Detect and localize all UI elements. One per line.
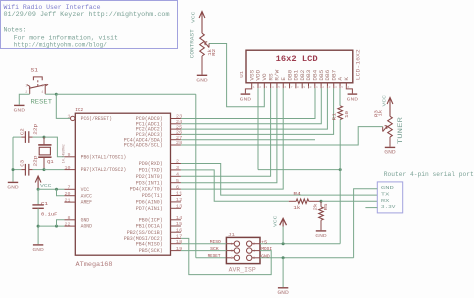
svg-text:AVR_ISP: AVR_ISP <box>229 266 256 273</box>
node XTAL2 junction <box>43 168 46 171</box>
svg-text:1k: 1k <box>293 206 300 211</box>
svg-text:VO: VO <box>262 73 268 80</box>
wire E net <box>181 88 283 189</box>
svg-text:9: 9 <box>303 86 305 89</box>
svg-text:PD2(INT0): PD2(INT0) <box>136 174 163 180</box>
svg-text:4: 4 <box>176 173 180 178</box>
ground under R5 <box>316 230 326 232</box>
svg-text:21: 21 <box>65 198 71 203</box>
svg-text:AREF: AREF <box>81 200 92 206</box>
wire to AVCC pin <box>57 189 65 195</box>
wire AGND row <box>38 225 64 227</box>
svg-text:PD4(XCK/T0): PD4(XCK/T0) <box>130 187 163 193</box>
svg-text:9: 9 <box>68 153 71 158</box>
svg-text:S1: S1 <box>31 67 39 73</box>
wire reset net to ISP pin 5 <box>196 257 227 259</box>
wire reset net horizontal to ISP column <box>56 93 196 95</box>
svg-text:TUNER: TUNER <box>397 117 404 144</box>
title block frame <box>1 1 178 49</box>
svg-text:PD7(AIN1): PD7(AIN1) <box>136 206 163 212</box>
svg-text:6: 6 <box>176 185 180 190</box>
header J1 AVR_ISP body <box>226 237 260 263</box>
ground under VSS <box>241 93 251 95</box>
wire R/W net <box>181 88 277 182</box>
svg-text:C3: C3 <box>20 159 25 166</box>
svg-text:3: 3 <box>266 86 268 89</box>
svg-text:R5: R5 <box>323 203 329 210</box>
wire ISP GND drop <box>282 258 284 287</box>
svg-text:8: 8 <box>68 216 71 221</box>
svg-text:12: 12 <box>176 198 183 203</box>
svg-text:22p: 22p <box>33 155 38 167</box>
wire C3 to crystal bottom node <box>33 169 44 171</box>
svg-text:R1: R1 <box>332 113 338 121</box>
svg-text:15: 15 <box>176 222 183 227</box>
wire switch left to ground <box>19 94 29 104</box>
svg-text:4: 4 <box>272 86 274 89</box>
svg-text:DB3: DB3 <box>306 70 312 81</box>
svg-text:GND: GND <box>261 253 270 259</box>
wire VCC rail vertical <box>339 120 341 244</box>
wire to GND pin 8 <box>57 220 65 226</box>
wire K to ground <box>346 88 352 93</box>
wire RS net <box>181 88 271 176</box>
wire A to resistor R1 <box>339 88 341 106</box>
capacitor C3 <box>24 164 26 176</box>
capacitor C2 <box>24 131 26 143</box>
svg-text:GND: GND <box>7 185 19 191</box>
svg-text:GND: GND <box>315 233 327 239</box>
svg-text:VSS: VSS <box>249 70 255 81</box>
wire reset junction to IC pin 1 <box>56 94 70 118</box>
node cap-gnd junction <box>12 168 15 171</box>
svg-text:2: 2 <box>259 86 261 89</box>
svg-text:22p: 22p <box>33 123 38 135</box>
svg-text:MOSI: MOSI <box>261 246 272 252</box>
supply VCC tuner <box>387 98 393 105</box>
wire R2 wiper tail <box>208 44 210 48</box>
wire DB6 net <box>181 88 327 129</box>
svg-text:Router 4-pin serial port: Router 4-pin serial port <box>384 171 474 178</box>
svg-text:Q1: Q1 <box>47 161 54 165</box>
switch S1 <box>33 77 42 80</box>
svg-text:RESET: RESET <box>208 253 221 259</box>
svg-text:R/W: R/W <box>275 70 281 81</box>
svg-text:ATmega168: ATmega168 <box>76 261 113 268</box>
svg-text:PB2(SS/OC1B): PB2(SS/OC1B) <box>127 230 163 236</box>
ground under ISP <box>278 287 288 289</box>
svg-text:14.7456MHz: 14.7456MHz <box>63 144 67 163</box>
wire crystal node to XTAL1 pin <box>44 137 64 157</box>
svg-text:GND: GND <box>240 96 252 102</box>
wire C2 to crystal node <box>33 136 44 138</box>
svg-text:4: 4 <box>41 91 43 95</box>
LCD module U1 body <box>246 50 353 83</box>
svg-text:PD6(AIN0): PD6(AIN0) <box>136 200 163 206</box>
svg-text:PB5(SCK): PB5(SCK) <box>139 248 163 254</box>
svg-text:20: 20 <box>65 192 71 197</box>
wire reset net vertical <box>195 94 197 258</box>
svg-text:5: 5 <box>176 179 180 184</box>
svg-text:PB4(MISO): PB4(MISO) <box>136 241 163 247</box>
wire +5 net <box>252 243 260 245</box>
supply VCC left <box>35 176 41 183</box>
svg-text:13: 13 <box>176 205 183 210</box>
node ISP GND junction <box>282 256 285 259</box>
supply VCC at ISP <box>280 218 287 225</box>
IC right pins <box>171 118 181 120</box>
wire VDD net to VCC rail <box>258 169 340 171</box>
svg-text:AVCC: AVCC <box>81 193 92 199</box>
svg-text:0.1uF: 0.1uF <box>41 213 58 218</box>
svg-text:1: 1 <box>25 84 27 88</box>
svg-text:2: 2 <box>176 160 180 165</box>
svg-text:VCC: VCC <box>190 11 196 23</box>
svg-text:LCD-16X2: LCD-16X2 <box>356 49 362 80</box>
ground under caps <box>8 181 18 183</box>
wire router GND to ISP ground rail <box>354 189 378 258</box>
potentiometer R3 TUNER <box>388 116 393 137</box>
svg-text:MISO: MISO <box>210 239 221 245</box>
wire caps to ground <box>12 137 14 182</box>
svg-text:DB2: DB2 <box>300 70 306 81</box>
crystal Q1 <box>43 137 45 144</box>
node XTAL1 junction <box>43 136 46 139</box>
node R4-R5 junction <box>320 200 323 203</box>
svg-text:DB6: DB6 <box>325 70 331 81</box>
svg-text:3: 3 <box>176 166 180 171</box>
svg-text:10: 10 <box>308 86 312 89</box>
svg-text:GND: GND <box>32 247 44 253</box>
wire C1 to ground <box>37 208 39 244</box>
svg-text:11: 11 <box>176 192 183 197</box>
wire R3 to ground <box>389 137 391 147</box>
svg-text:PC6(/RESET): PC6(/RESET) <box>81 116 112 122</box>
ground under R3 <box>385 146 395 148</box>
svg-text:16: 16 <box>176 228 183 233</box>
svg-text:10: 10 <box>344 111 350 118</box>
svg-text:PB6(XTAL1/TOSC1): PB6(XTAL1/TOSC1) <box>81 154 127 160</box>
svg-text:A: A <box>338 77 344 81</box>
svg-text:1: 1 <box>253 86 255 89</box>
svg-text:SCK: SCK <box>210 246 219 252</box>
node VCC junction <box>37 188 40 191</box>
wire VCC to pin 7 <box>38 188 64 190</box>
svg-text:10: 10 <box>65 166 71 171</box>
svg-text:For more information, visit: For more information, visit <box>14 34 118 41</box>
wire VDD net vertical <box>257 88 259 169</box>
wire ISP GND net <box>252 257 260 259</box>
svg-text:GND: GND <box>347 96 359 102</box>
svg-text:VDD: VDD <box>256 70 262 81</box>
wire SCK net <box>181 250 226 252</box>
wire C2 left lead <box>13 136 21 138</box>
svg-text:DB7: DB7 <box>331 70 337 81</box>
svg-text:7: 7 <box>68 186 71 191</box>
svg-text:22: 22 <box>65 222 71 227</box>
wire router 3.3V stub <box>365 207 377 209</box>
wire DB4 net <box>181 88 315 118</box>
svg-text:http://mightyohm.com/blog/: http://mightyohm.com/blog/ <box>14 42 107 49</box>
svg-text:GND: GND <box>384 150 396 156</box>
capacitor C1 <box>37 189 39 204</box>
node VCC-AVCC junction <box>55 188 58 191</box>
svg-text:RESET: RESET <box>31 99 53 106</box>
LCD pins <box>251 83 253 89</box>
svg-text:C1: C1 <box>41 202 48 207</box>
svg-text:C2: C2 <box>20 128 25 135</box>
wire PD1 TXD net to R4 <box>181 170 289 201</box>
svg-text:RS: RS <box>268 73 274 80</box>
router port connector box <box>377 182 402 213</box>
svg-text:2k: 2k <box>313 203 319 210</box>
ground under switch <box>14 104 24 106</box>
wire VO net to contrast wiper <box>209 44 264 107</box>
node RESET junction <box>55 93 58 96</box>
svg-text:R4: R4 <box>293 192 301 197</box>
svg-text:VCC: VCC <box>81 187 90 193</box>
node +5 junction <box>282 242 285 245</box>
svg-text:DB0: DB0 <box>287 70 293 81</box>
svg-text:AGND: AGND <box>81 224 92 230</box>
svg-text:PB1(OC1A): PB1(OC1A) <box>136 224 163 230</box>
svg-text:Wifi Radio User Interface: Wifi Radio User Interface <box>4 4 101 11</box>
svg-text:TX: TX <box>381 192 390 198</box>
svg-text:U1: U1 <box>240 70 245 77</box>
svg-text:GND: GND <box>381 185 394 191</box>
svg-text:GND: GND <box>196 78 208 84</box>
svg-text:1: 1 <box>68 115 71 120</box>
svg-text:PD0(RXD): PD0(RXD) <box>139 161 163 167</box>
svg-text:3.3V: 3.3V <box>381 204 396 210</box>
supply VCC contrast <box>199 12 205 19</box>
svg-text:GND: GND <box>81 217 90 223</box>
svg-text:1k: 1k <box>378 110 384 117</box>
wire C3 left lead <box>13 169 21 171</box>
resistor R1 <box>338 106 343 120</box>
svg-text:14: 14 <box>176 216 183 221</box>
potentiometer R2 CONTRAST <box>200 33 205 56</box>
ground under R2 <box>197 74 207 76</box>
svg-text:DB1: DB1 <box>294 70 300 81</box>
svg-text:PB7(XTAL2/TOSC2): PB7(XTAL2/TOSC2) <box>81 167 127 173</box>
wire tuner wiper to PC5 <box>382 127 384 132</box>
svg-text:GND: GND <box>14 108 26 114</box>
ground under C1 <box>33 244 43 246</box>
header J1 pin circles <box>234 241 239 246</box>
svg-text:PB0(ICP): PB0(ICP) <box>139 217 163 223</box>
svg-text:J1: J1 <box>228 233 235 238</box>
svg-text:3: 3 <box>41 84 43 88</box>
svg-text:VCC: VCC <box>272 215 278 227</box>
resistor R5 <box>320 201 322 207</box>
svg-text:DB5: DB5 <box>319 70 325 81</box>
svg-text:E: E <box>281 77 287 81</box>
svg-text:GND: GND <box>277 290 289 296</box>
svg-text:6: 6 <box>284 86 286 89</box>
svg-text:K: K <box>344 77 350 81</box>
node GND-AGND junction <box>55 225 58 228</box>
wire switch right to reset junction <box>45 93 56 95</box>
wire DB7 net <box>181 88 334 134</box>
svg-text:PD1(TXD): PD1(TXD) <box>139 168 163 174</box>
wire VSS to ground <box>245 88 251 93</box>
svg-text:5: 5 <box>231 257 233 261</box>
svg-text:Notes:: Notes: <box>4 26 27 33</box>
svg-text:16x2 LCD: 16x2 LCD <box>276 55 318 64</box>
svg-text:8: 8 <box>297 86 299 89</box>
svg-text:PD5(T1): PD5(T1) <box>142 193 163 199</box>
svg-text:DB4: DB4 <box>313 70 319 81</box>
svg-text:IC2: IC2 <box>75 107 83 113</box>
svg-text:CONTRAST: CONTRAST <box>190 29 196 58</box>
svg-text:VCC: VCC <box>40 183 52 189</box>
svg-text:+5: +5 <box>261 239 267 245</box>
svg-text:PD3(INT1): PD3(INT1) <box>136 180 163 186</box>
wire MOSI net loop <box>181 238 271 274</box>
IC IC2 body <box>75 113 170 255</box>
wire PC4 net <box>181 139 315 141</box>
wire PD0 RXD net to router TX <box>181 164 377 196</box>
svg-text:5: 5 <box>278 86 280 89</box>
resistor R4 <box>289 200 296 202</box>
svg-text:R2: R2 <box>211 49 217 56</box>
wire divider junction to router RX <box>321 200 377 202</box>
svg-text:7: 7 <box>291 86 293 89</box>
ground under K <box>348 93 358 95</box>
svg-text:01/29/09 Jeff Keyzer http://mi: 01/29/09 Jeff Keyzer http://mightyohm.co… <box>4 11 170 18</box>
node AGND junction left <box>37 225 40 228</box>
wire DB5 net <box>181 88 321 124</box>
IC left pins <box>71 116 75 120</box>
node VDD-VCC junction <box>339 168 342 171</box>
svg-text:RX: RX <box>381 198 390 204</box>
wire crystal bottom to XTAL2 pin <box>44 169 64 171</box>
svg-text:PC5(ADC5/SCL): PC5(ADC5/SCL) <box>124 143 163 149</box>
wire MISO net <box>181 243 226 245</box>
wire R2 to ground <box>201 56 203 75</box>
svg-text:VCC: VCC <box>382 95 388 107</box>
